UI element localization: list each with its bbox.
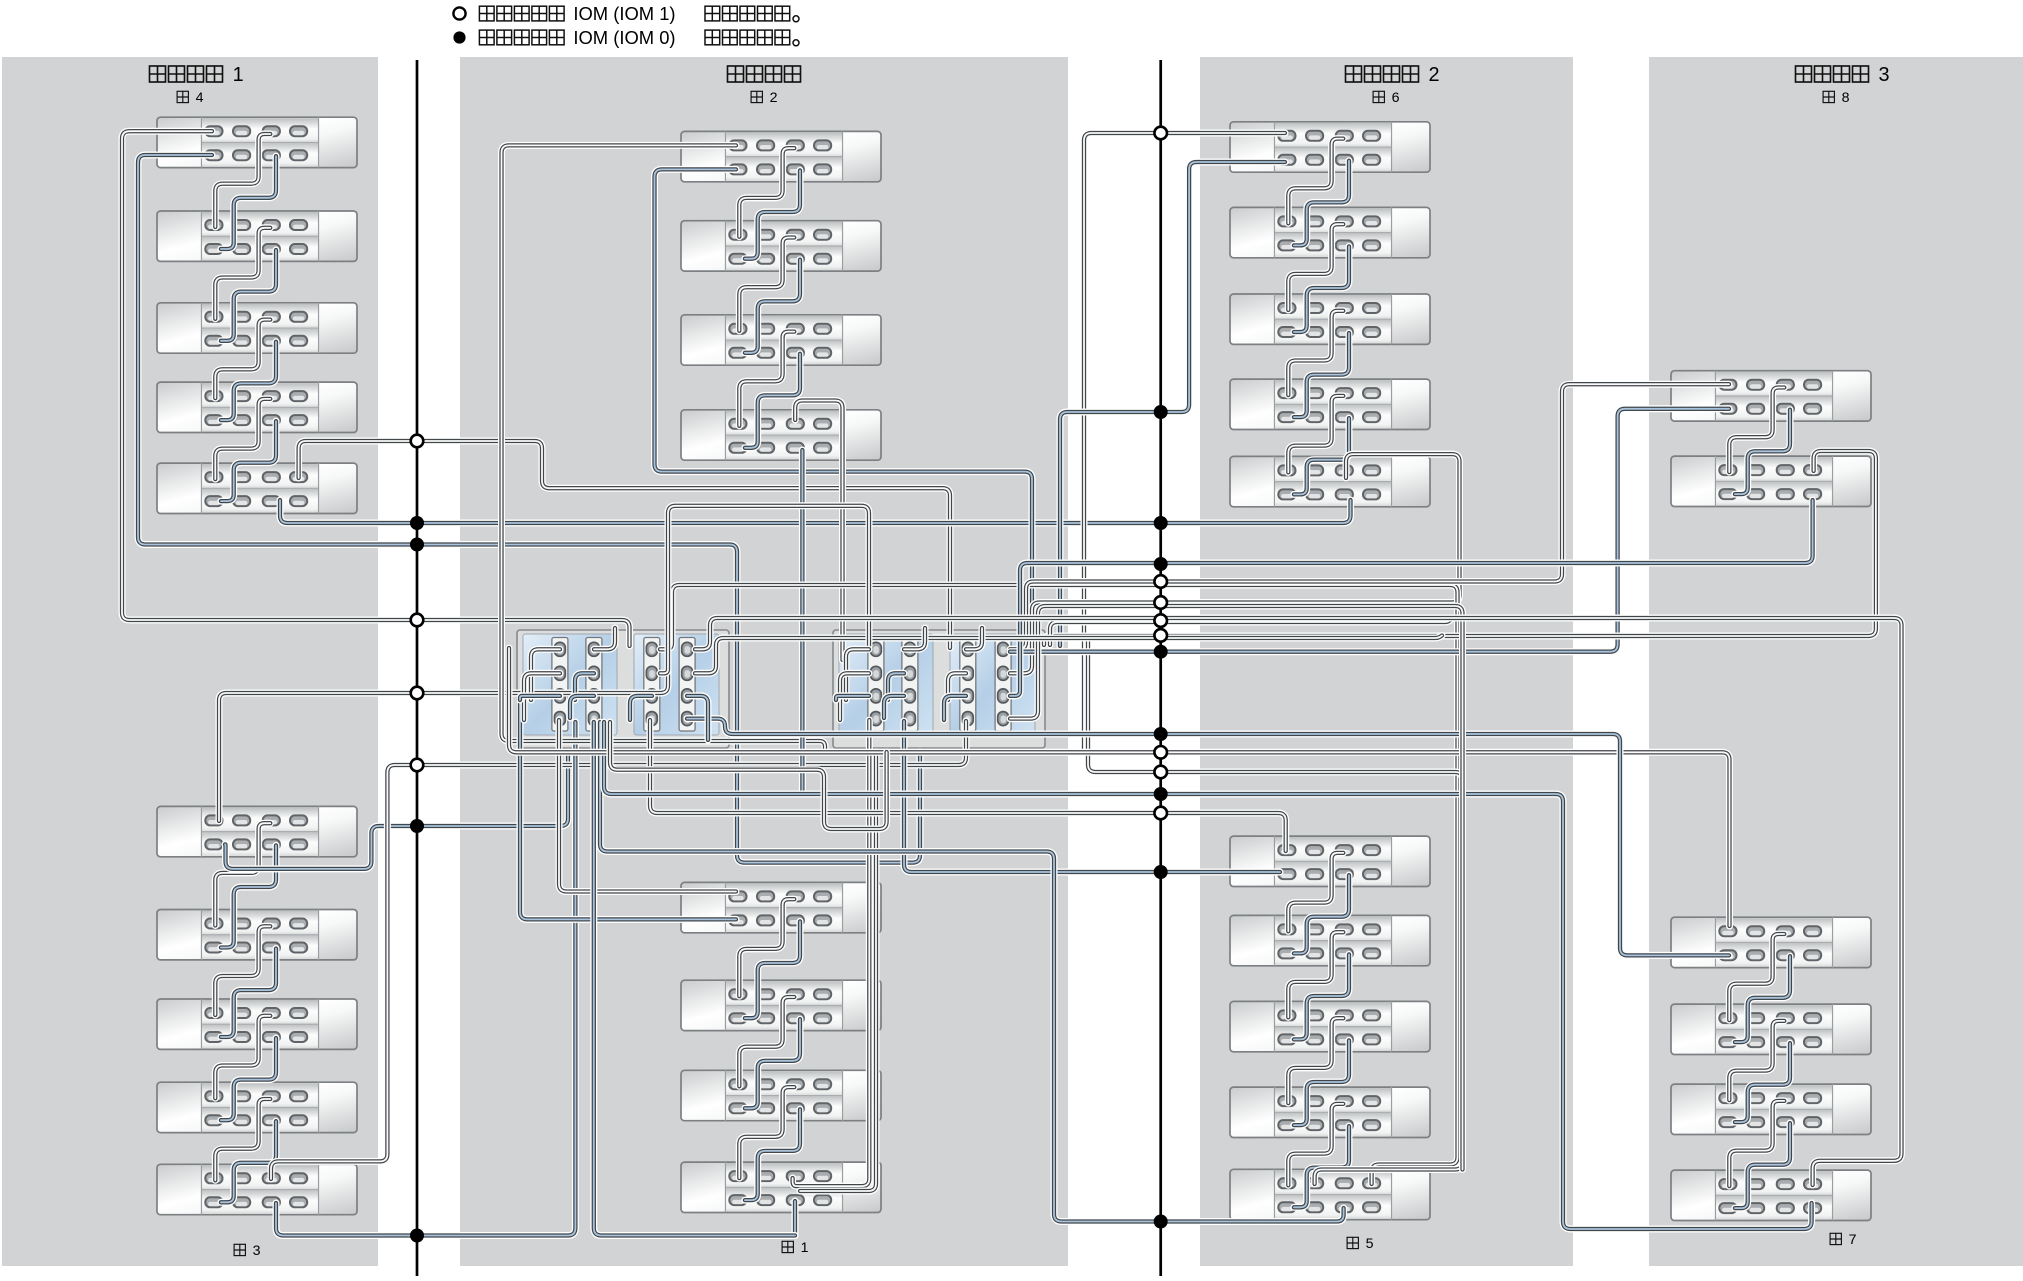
cable controller1 to controller2 row505	[660, 506, 869, 674]
cable chain8 shelf2 IOM1 from controller2	[1044, 451, 1876, 645]
cable chain3 shelf1 IOM0 to controller1	[225, 752, 568, 869]
cable chain7 shelf1 IOM0 to shelf2	[1735, 956, 1790, 1042]
disk shelf chain7 shelf1	[1671, 917, 1871, 967]
cable chain5 shelf4 IOM0 to shelf5	[1294, 1126, 1349, 1207]
node rail2 y133 IOM1	[1154, 127, 1167, 140]
disk shelf chain5 shelf1	[1230, 836, 1430, 886]
cable chain4 shelf5 IOM0 / chain6 shelf5 IOM0 trunk	[280, 500, 1351, 523]
cable chain6 shelf5 IOM1 from controller2	[1010, 454, 1460, 673]
node rail1 y1235 IOM0	[410, 1229, 424, 1243]
cable chain6 shelf1 IOM0 to shelf2	[1294, 161, 1349, 246]
controller1 card3 port hook c	[630, 696, 652, 720]
disk shelf chain3 shelf4	[157, 1082, 357, 1132]
controller1 card2 port hook c	[570, 696, 594, 718]
vertical rail 2	[1159, 60, 1162, 1276]
cable chain4 shelf2 IOM1 to shelf3	[215, 228, 270, 319]
cable chain3 shelf2 IOM0 to shelf3	[221, 949, 276, 1038]
cable chain5 shelf3 IOM0 to shelf4	[1294, 1040, 1349, 1125]
disk shelf chain5 shelf2	[1230, 915, 1430, 965]
cable chain5 shelf2 IOM1 to shelf3	[1288, 932, 1343, 1017]
svg-text:8: 8	[1842, 90, 1850, 106]
cable chain7 shelf1 IOM1 from controller1	[509, 648, 1730, 926]
node rail1 y620 IOM1	[411, 614, 424, 627]
cable chain3 shelf1 IOM0 to shelf2	[221, 845, 276, 947]
controller2 card3 port hook c	[944, 696, 966, 720]
cable chain3 shelf5 IOM1 to controller2	[271, 721, 966, 1179]
disk shelf chain8 shelf1	[1671, 371, 1871, 421]
controller1 card1 port hook c	[520, 696, 560, 700]
label chain 3	[234, 1243, 261, 1259]
controller2 card3 port hook b	[948, 673, 966, 700]
node rail2 y602 IOM1	[1154, 596, 1167, 609]
cable chain4 shelf1 IOM1 to shelf2	[215, 134, 270, 227]
cable chain1 shelf2 IOM0 to shelf3	[745, 1019, 800, 1108]
cable chain3 shelf1 IOM1 to shelf2	[215, 823, 270, 925]
cable chain4 shelf1 IOM1 to controller1	[122, 131, 630, 646]
svg-text:6: 6	[1392, 90, 1400, 106]
label chain 4	[177, 90, 204, 106]
svg-text:1: 1	[801, 1240, 809, 1256]
svg-text:5: 5	[1366, 1236, 1374, 1252]
disk shelf chain3 shelf2	[157, 910, 357, 960]
cable chain5 shelf5 IOM0 to controller1	[600, 722, 1344, 1222]
cable chain1 shelf1 IOM0 from controller1	[520, 700, 736, 919]
node rail1 y826 IOM0	[410, 819, 424, 833]
cabinet panel: expansion rack 2	[1200, 57, 1573, 1266]
cable chain1 shelf4 IOM0 from controller1	[594, 722, 795, 1236]
node rail1 y544 IOM0	[410, 538, 424, 552]
cable chain5 shelf4 IOM1 to shelf5	[1288, 1104, 1343, 1185]
node rail1 y523 IOM0	[410, 516, 424, 530]
cable chain3 shelf5 IOM0 to controller1	[276, 722, 575, 1236]
disk shelf chain6 shelf2	[1230, 207, 1430, 257]
cable chain6 shelf1 IOM0 from controller2	[1060, 162, 1285, 646]
disk shelf chain1 shelf4	[681, 1162, 881, 1212]
svg-text:3: 3	[253, 1243, 261, 1259]
disk shelf chain8 shelf2	[1671, 456, 1871, 506]
disk shelf chain3 shelf5	[157, 1164, 357, 1214]
cable chain7 shelf2 IOM0 to shelf3	[1735, 1043, 1790, 1122]
label chain 5	[1347, 1236, 1374, 1252]
cable chain8 shelf1 IOM1 from controller2	[1010, 384, 1729, 649]
controller1 card1 port hook b	[524, 673, 560, 720]
disk shelf chain3 shelf3	[157, 999, 357, 1049]
disk shelf chain2 shelf4	[681, 410, 881, 460]
legend text line 2	[479, 27, 799, 48]
node rail2 y581 IOM1	[1154, 575, 1167, 588]
cable chain2 shelf1 IOM0 to shelf2	[745, 170, 800, 258]
disk shelf chain4 shelf5	[157, 463, 357, 513]
disk shelf chain2 shelf2	[681, 221, 881, 271]
legend text line 1	[479, 3, 799, 24]
disk shelf chain7 shelf4	[1671, 1170, 1871, 1220]
controller1 card4 port hook c	[687, 696, 708, 740]
cable chain4 shelf1 IOM0 to shelf2	[221, 156, 276, 249]
controller2 card2 port hook b	[888, 673, 904, 700]
node rail2 y564 IOM0	[1154, 557, 1168, 571]
cable chain4 shelf3 IOM0 to shelf4	[221, 342, 276, 420]
disk shelf chain4 shelf2	[157, 211, 357, 261]
node rail2 y651 IOM0	[1154, 645, 1168, 659]
controller1 card2 port hook a	[594, 628, 615, 649]
disk shelf chain7 shelf3	[1671, 1084, 1871, 1134]
cable chain7 shelf3 IOM1 to shelf4	[1729, 1101, 1784, 1186]
cable chain3 shelf3 IOM1 to shelf4	[215, 1016, 270, 1098]
svg-text:4: 4	[196, 90, 204, 106]
label chain 2	[751, 90, 778, 106]
cable chain6 shelf3 IOM0 to shelf4	[1294, 333, 1349, 417]
cable chain2 shelf4 IOM0 to controller2	[799, 450, 806, 794]
controller2 card1 port hook a	[846, 649, 869, 700]
disk shelf chain4 shelf1	[157, 117, 357, 167]
cable chain2 shelf1 IOM1 to shelf2	[739, 148, 794, 237]
cable chain6 shelf4 IOM0 to shelf5	[1294, 418, 1349, 494]
svg-text:2: 2	[1429, 64, 1440, 86]
svg-text:IOM (IOM 1): IOM (IOM 1)	[573, 3, 675, 24]
node rail2 y412 IOM0	[1154, 405, 1168, 419]
cable chain4 shelf4 IOM0 to shelf5	[221, 421, 276, 501]
cable chain1 shelf3 IOM0 to shelf4	[745, 1109, 800, 1200]
disk shelf chain7 shelf2	[1671, 1004, 1871, 1054]
cable chain8 shelf1 IOM0 to shelf2	[1735, 410, 1790, 494]
cable controller1 to controller2 row829	[610, 722, 887, 829]
disk shelf chain5 shelf5	[1230, 1169, 1430, 1219]
cable chain6 shelf2 IOM0 to shelf3	[1294, 246, 1349, 332]
node rail2 y1221 IOM0	[1154, 1215, 1168, 1229]
node rail2 y872 IOM0	[1154, 865, 1168, 879]
cable chain5 shelf1 IOM0 from controller2	[904, 721, 1280, 872]
cable chain5 shelf3 IOM1 to shelf4	[1288, 1018, 1343, 1103]
cable chain7 shelf2 IOM1 to shelf3	[1729, 1021, 1784, 1100]
disk shelf chain2 shelf3	[681, 315, 881, 365]
cable chain1 shelf4 IOM0 stub	[792, 1201, 799, 1236]
cable chain1 shelf4 IOM1 from controller2	[793, 720, 870, 1186]
cable chain3 shelf4 IOM0 to shelf5	[221, 1121, 276, 1202]
vertical rail 1	[416, 60, 419, 1276]
label chain 6	[1373, 90, 1400, 106]
disk shelf chain1 shelf2	[681, 980, 881, 1030]
node rail2 y635 IOM1	[1154, 629, 1167, 642]
cable chain1 shelf1 IOM1 to shelf2	[739, 899, 794, 996]
cable chain6 shelf1 IOM1 from controller2	[1084, 133, 1285, 752]
controller controller 2	[833, 630, 1045, 748]
cable chain2 shelf2 IOM1 to shelf3	[739, 238, 794, 331]
disk shelf chain1 shelf3	[681, 1070, 881, 1120]
node rail2 y794 IOM0	[1154, 787, 1168, 801]
controller1 card1 port hook a	[531, 649, 560, 700]
label chain 1	[782, 1240, 809, 1256]
cable chain5 shelf1 IOM0 to shelf2	[1294, 875, 1349, 953]
disk shelf chain5 shelf3	[1230, 1001, 1430, 1051]
controller1 card2 port hook b	[575, 673, 594, 700]
cable chain7 shelf3 IOM0 to shelf4	[1735, 1123, 1790, 1208]
title base rack	[728, 66, 801, 82]
legend: filled circle = bottom IOM (IOM 0)	[453, 31, 465, 43]
cable chain1 shelf1 IOM1 from controller1	[559, 720, 736, 892]
title expansion rack 2	[1346, 64, 1440, 86]
svg-text:IOM (IOM 0): IOM (IOM 0)	[573, 27, 675, 48]
cable chain3 shelf3 IOM0 to shelf4	[221, 1038, 276, 1120]
svg-text:3: 3	[1879, 64, 1890, 86]
cable chain6 shelf3 IOM1 to shelf4	[1288, 311, 1343, 395]
disk shelf chain3 shelf1	[157, 806, 357, 856]
disk shelf chain6 shelf4	[1230, 379, 1430, 429]
cable chain8 shelf2 IOM0 to controller2	[1010, 500, 1813, 696]
node rail2 y734 IOM0	[1154, 727, 1168, 741]
cable chain7 shelf4 IOM1 from controller1	[695, 618, 1902, 1185]
cable chain6 shelf4 IOM1 to shelf5	[1288, 396, 1343, 473]
cable chain2 shelf1 IOM1	[502, 145, 826, 752]
legend: open circle = top IOM (IOM 1)	[453, 7, 465, 19]
cable chain2 shelf3 IOM0 to shelf4	[745, 354, 800, 448]
controller2 card1 port hook b	[840, 673, 869, 720]
node rail1 y765 IOM1	[411, 759, 424, 772]
node rail2 y523 IOM0	[1154, 516, 1168, 530]
svg-text:7: 7	[1849, 1232, 1857, 1248]
disk shelf chain6 shelf5	[1230, 456, 1430, 506]
cable chain1 shelf2 IOM1 to shelf3	[739, 997, 794, 1086]
cabinet panel: expansion rack 3	[1649, 57, 2023, 1266]
cable partner row638	[695, 636, 1442, 674]
cable chain4 shelf2 IOM0 to shelf3	[221, 250, 276, 341]
cable chain5 shelf5 IOM1	[660, 585, 1458, 1184]
cable chain4 shelf5 IOM1 to controller2	[299, 441, 950, 648]
cable chain3 shelf1 IOM1 to controller1	[219, 644, 668, 821]
node rail2 y813 IOM1	[1154, 807, 1167, 820]
cabinet panel: base rack	[460, 57, 1068, 1266]
cable chain5 shelf1 IOM1 from controller1	[650, 720, 1286, 851]
label chain 7	[1830, 1232, 1857, 1248]
node rail1 y693 IOM1	[411, 687, 424, 700]
title expansion rack 1	[150, 64, 244, 86]
controller controller 1	[517, 630, 729, 748]
cable chain7 shelf1 IOM1 to shelf2	[1729, 934, 1784, 1020]
cable chain2 shelf2 IOM0 to shelf3	[745, 260, 800, 353]
cable chain1 shelf4 IOM1b	[800, 752, 876, 1191]
cable partner row622	[1050, 619, 1452, 646]
cable chain7 shelf4 IOM0 to controller1	[604, 722, 1812, 1229]
disk shelf chain2 shelf1	[681, 131, 881, 181]
node rail2 y620 IOM1	[1154, 614, 1167, 627]
title expansion rack 3	[1796, 64, 1890, 86]
cable chain3 shelf4 IOM1 to shelf5	[215, 1099, 270, 1180]
disk shelf chain5 shelf4	[1230, 1087, 1430, 1137]
cable chain6 shelf2 IOM1 to shelf3	[1288, 224, 1343, 310]
cable chain4 shelf3 IOM1 to shelf4	[215, 320, 270, 399]
cable chain1 shelf3 IOM1 to shelf4	[739, 1087, 794, 1178]
cable chain5 shelf5 IOM1b	[1088, 640, 1463, 1184]
controller2 card3 port hook a	[966, 628, 982, 649]
cabinet panel: expansion rack 1	[2, 57, 378, 1266]
disk shelf chain4 shelf3	[157, 303, 357, 353]
cable chain8 shelf1 IOM0 from controller2	[1010, 409, 1729, 652]
cable chain2 shelf3 IOM1 to shelf4	[739, 332, 794, 426]
cable chain7 shelf1 IOM0 from controller1	[687, 719, 1729, 956]
controller2 card2 port hook a	[904, 628, 925, 649]
cable partner row606	[1010, 606, 1463, 1170]
cable chain4 shelf4 IOM1 to shelf5	[215, 399, 270, 479]
cable chain2 shelf1 IOM0 to controller2	[655, 169, 1033, 648]
cable chain2 shelf4 IOM1 to controller2	[795, 401, 842, 661]
controller2 card1 port hook c	[836, 696, 869, 700]
cable chain6 shelf1 IOM1 to shelf2	[1288, 139, 1343, 224]
cable chain3 shelf2 IOM1 to shelf3	[215, 926, 270, 1015]
cable chain4 shelf1 IOM0 to controller2	[138, 155, 920, 863]
disk shelf chain1 shelf1	[681, 882, 881, 932]
disk shelf chain4 shelf4	[157, 382, 357, 432]
cable chain1 shelf1 IOM0 to shelf2	[745, 921, 800, 1018]
label chain 8	[1823, 90, 1850, 106]
cable chain5 shelf1 IOM1 to shelf2	[1288, 853, 1343, 932]
node rail2 y752 IOM1	[1154, 746, 1167, 759]
disk shelf chain6 shelf1	[1230, 122, 1430, 172]
cable chain8 shelf1 IOM1 to shelf2	[1729, 388, 1784, 473]
controller2 card2 port hook c	[884, 696, 904, 718]
svg-text:1: 1	[233, 64, 244, 86]
cable chain5 shelf2 IOM0 to shelf3	[1294, 954, 1349, 1039]
node rail2 y772 IOM1	[1154, 766, 1167, 779]
node rail1 y441 IOM1	[411, 435, 424, 448]
svg-text:2: 2	[770, 90, 778, 106]
disk shelf chain6 shelf3	[1230, 294, 1430, 344]
